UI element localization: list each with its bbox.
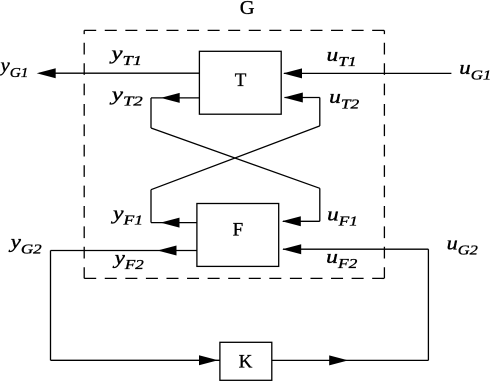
svg-text:yT1: yT1 — [109, 44, 142, 69]
wire u_T2 vertical rise — [319, 98, 321, 126]
dashed box G boundary right edge — [383, 30, 385, 278]
wire u_T2 horizontal into T — [285, 97, 320, 99]
label u_G1 — [459, 58, 490, 83]
arrowhead u_T2 into T — [284, 93, 303, 103]
block T outline — [199, 51, 281, 114]
svg-text:uG2: uG2 — [447, 233, 478, 258]
arrowhead y_F1 mid-wire — [161, 218, 180, 228]
arrowhead u_T1 into T — [283, 68, 302, 78]
svg-text:uF2: uF2 — [326, 247, 357, 272]
label u_G2 — [447, 233, 478, 258]
label y_F1 — [111, 203, 144, 228]
dashed box G boundary left edge — [83, 30, 85, 278]
arrowhead y_F2 mid-wire — [158, 246, 177, 256]
label u_T1 — [327, 45, 357, 70]
block K outline — [220, 342, 272, 380]
svg-text:uT2: uT2 — [329, 87, 359, 112]
wire u_F1 horizontal into F — [283, 220, 320, 222]
svg-text:K: K — [239, 352, 253, 373]
wire y_T2 horizontal from T — [151, 97, 199, 99]
svg-text:G: G — [240, 0, 255, 19]
arrowhead u_F1 into F — [282, 216, 301, 226]
wire y_F2 to y_G2 — [51, 250, 197, 252]
arrowhead y_T2 mid-wire — [161, 93, 180, 103]
wire u_G2 vertical down — [427, 249, 429, 360]
wire y_F1 horizontal from F — [151, 222, 197, 224]
label T in block — [235, 70, 247, 91]
wire u_G1 to u_T1 — [284, 72, 451, 74]
label y_T1 — [109, 44, 142, 69]
label u_F1 — [327, 204, 358, 229]
arrowhead y_G1 — [37, 68, 56, 78]
label y_G2 — [8, 232, 42, 257]
arrowhead into K input — [199, 355, 218, 365]
svg-text:T: T — [235, 70, 247, 91]
svg-text:uT1: uT1 — [327, 45, 357, 70]
svg-text:yG1: yG1 — [0, 56, 28, 81]
svg-text:uF1: uF1 — [327, 204, 358, 229]
svg-text:uG1: uG1 — [459, 58, 490, 83]
svg-text:yT2: yT2 — [109, 84, 143, 109]
label K in block — [239, 352, 253, 373]
label y_T2 — [109, 84, 143, 109]
wire bottom into K — [51, 359, 220, 361]
dashed box G boundary top edge — [84, 29, 384, 31]
wire u_F2 from u_G2 — [283, 248, 428, 250]
block F outline — [197, 204, 279, 267]
wire y_T1 to y_G1 — [39, 72, 199, 74]
arrowhead u_F2 into F — [282, 244, 301, 254]
svg-text:F: F — [233, 220, 244, 241]
svg-text:yF2: yF2 — [112, 248, 144, 273]
wire y_G2 vertical down to K input — [50, 251, 52, 361]
arrowhead K output mid-wire pointing right — [329, 355, 348, 365]
label G — [240, 0, 255, 19]
label y_F2 — [112, 248, 144, 273]
svg-text:yG2: yG2 — [8, 232, 42, 257]
label F in block — [233, 220, 244, 241]
wire K output bottom — [272, 359, 429, 361]
wire y_F1 vertical rise — [150, 190, 152, 223]
wire y_T2 vertical drop — [150, 98, 152, 128]
label u_F2 — [326, 247, 357, 272]
wire diagonal y_F1 to u_T2 — [151, 126, 320, 190]
wire u_F1 vertical drop — [319, 188, 321, 221]
label u_T2 — [329, 87, 359, 112]
wire diagonal y_T2 to u_F1 — [151, 128, 320, 188]
dashed box G boundary bottom edge — [84, 277, 384, 279]
label y_G1 — [0, 56, 28, 81]
svg-text:yF1: yF1 — [111, 203, 144, 228]
